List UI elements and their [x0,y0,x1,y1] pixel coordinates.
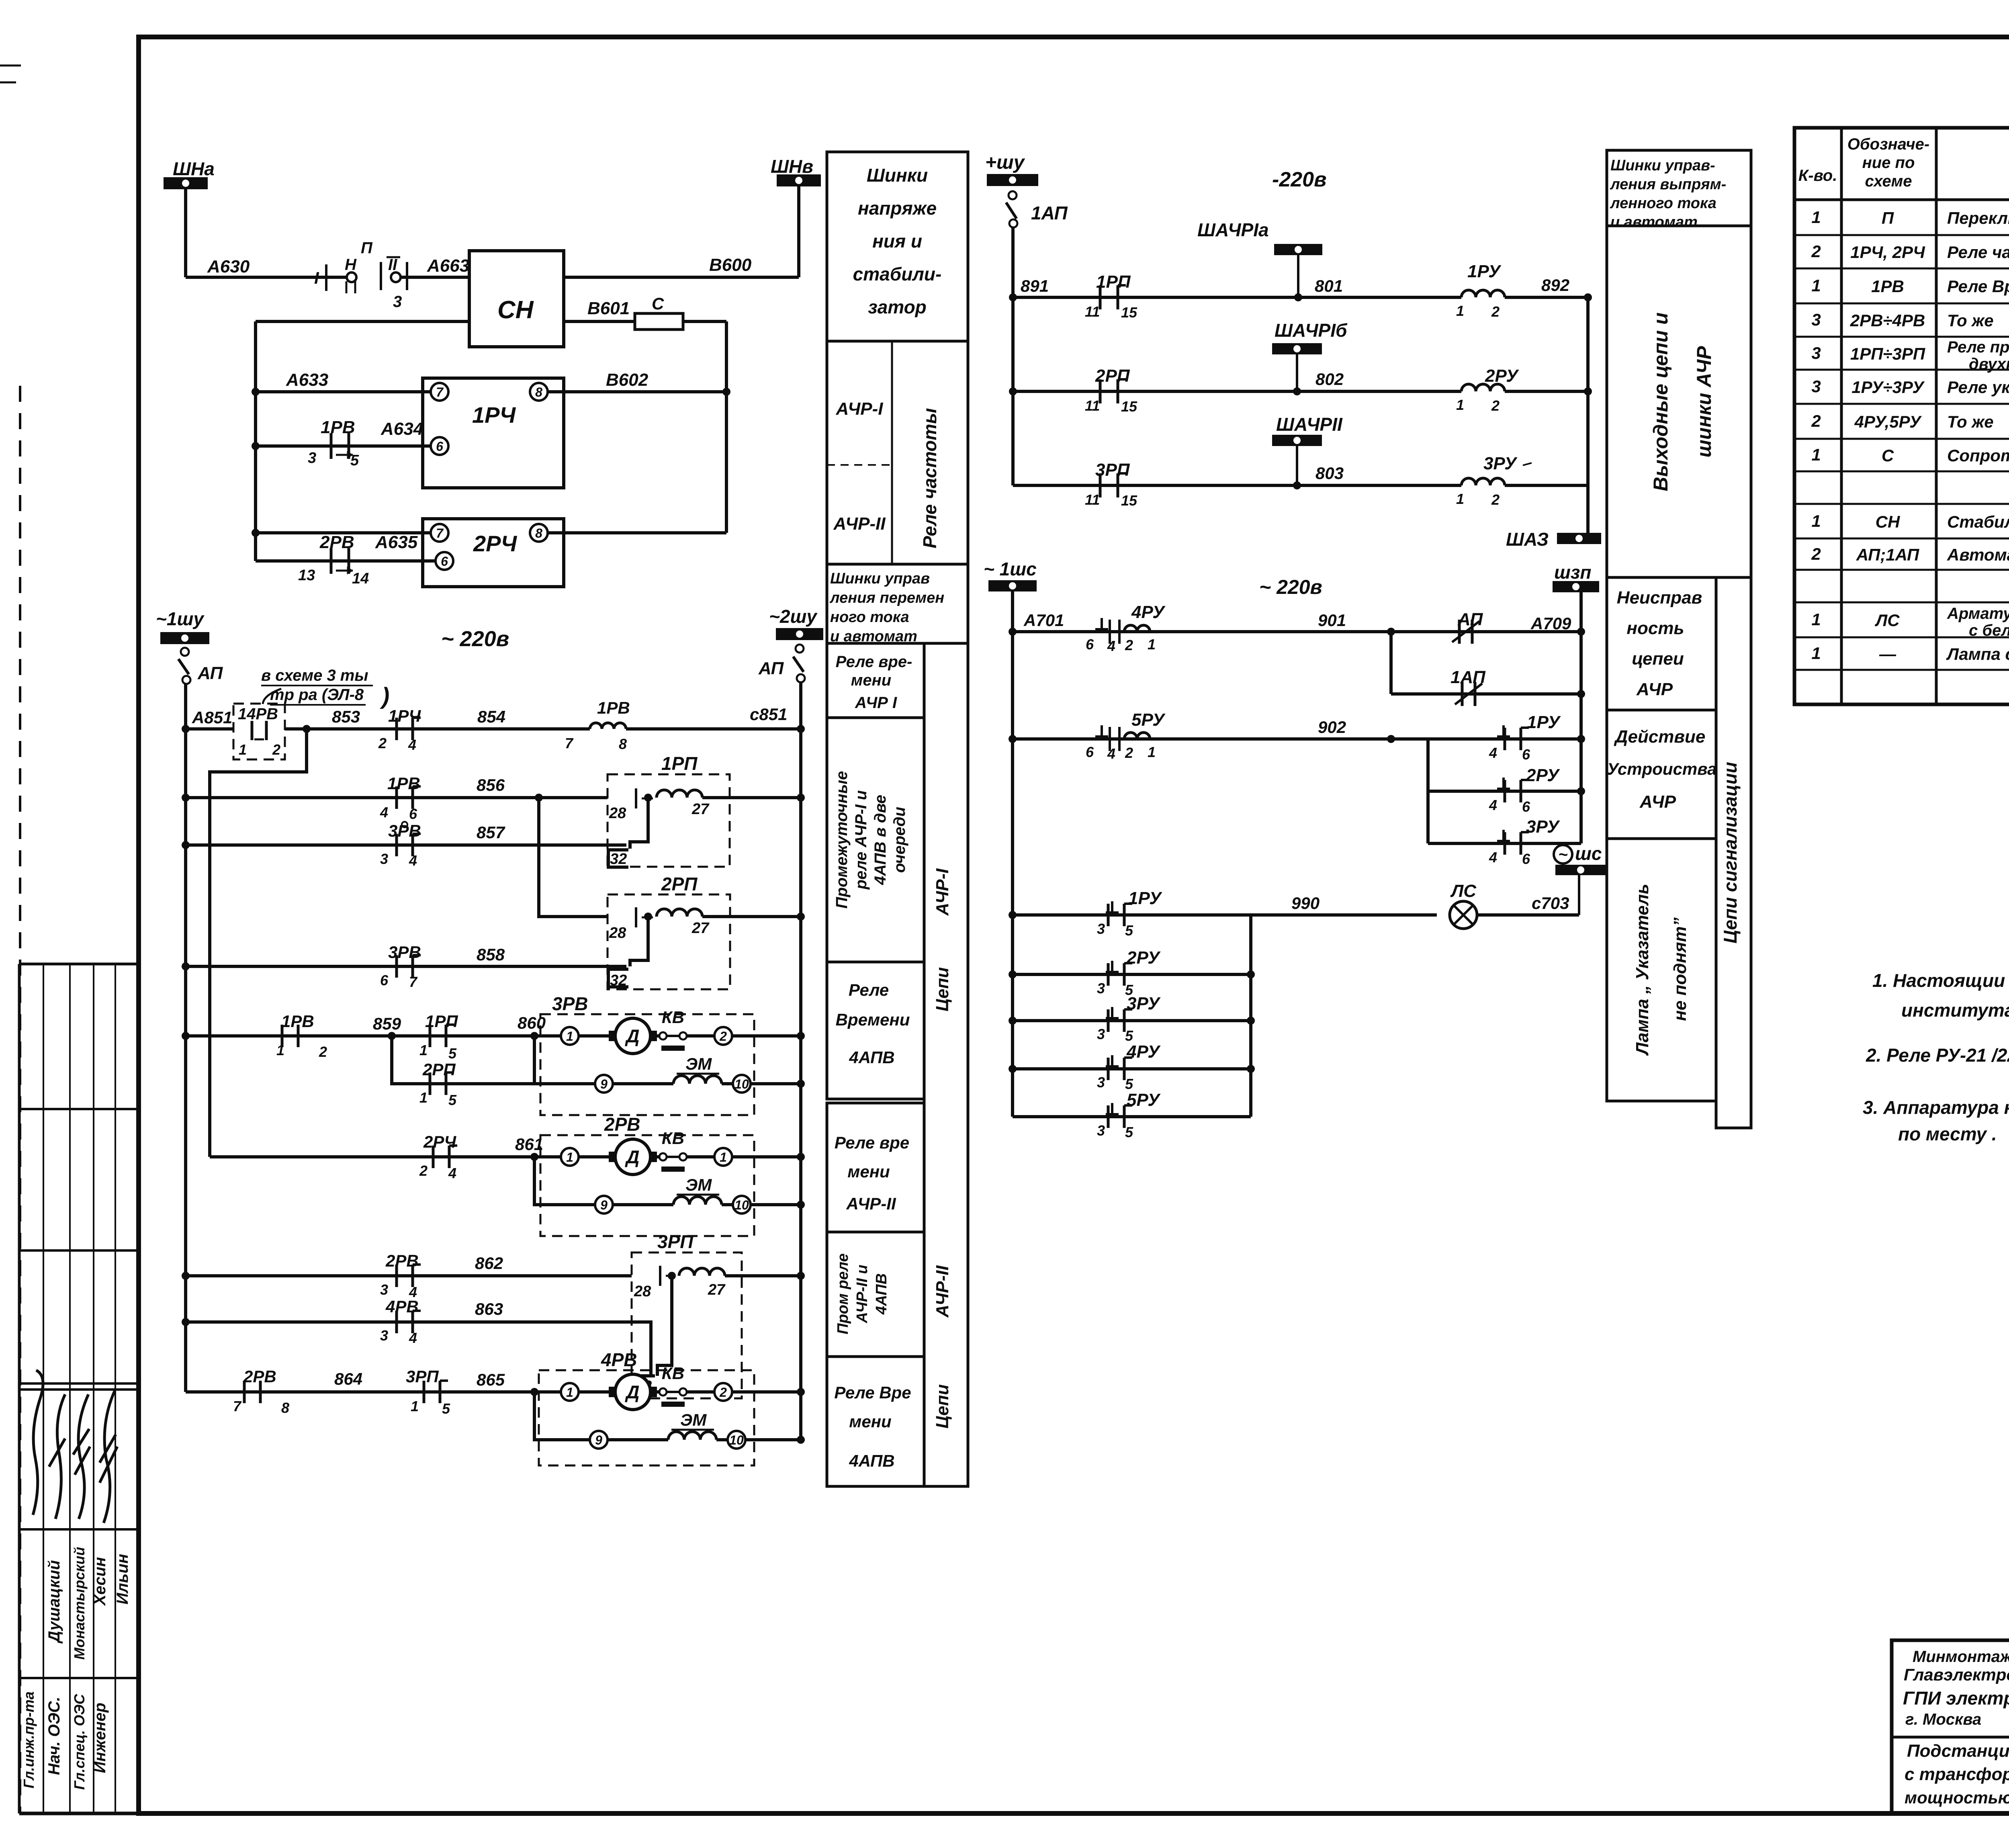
svg-text:7: 7 [436,526,444,540]
svg-text:Цепи: Цепи [933,1384,952,1428]
svg-text:2: 2 [1491,491,1500,508]
svg-text:В601: В601 [587,299,630,318]
4RV EM coil [668,1432,716,1440]
svg-text:2РУ: 2РУ [1526,765,1560,785]
svg-text:901: 901 [1318,611,1346,630]
svg-text:Н: Н [345,256,357,274]
svg-text:7: 7 [565,735,574,751]
1RP internal wire to pin 32 [630,798,648,849]
svg-text:861: 861 [515,1135,543,1154]
3RV output wire [732,1034,801,1038]
svg-text:ШАЧРIб: ШАЧРIб [1275,320,1348,341]
svg-text:и автомат.: и автомат. [1610,214,1702,231]
svg-text:1: 1 [1811,512,1821,530]
svg-text:Шинки управ: Шинки управ [830,570,930,587]
wire to SHNv [797,186,800,277]
svg-text:28: 28 [609,805,626,822]
svg-text:6: 6 [1086,744,1094,760]
svg-text:4: 4 [409,852,417,869]
label box output circuits [1607,226,1751,577]
svg-text:1АП: 1АП [1031,203,1068,223]
label box AChR circuit fault [1607,577,1716,710]
svg-text:856: 856 [477,776,505,794]
svg-text:28: 28 [609,925,626,941]
row 857 with 3RV contact [186,843,626,847]
row 859-860 [186,1034,561,1038]
svg-text:5: 5 [1125,1076,1133,1092]
svg-text:1: 1 [1148,636,1156,653]
svg-text:Реле Вре: Реле Вре [834,1383,911,1402]
svg-text:3РП: 3РП [657,1231,694,1252]
svg-text:Д: Д [624,1146,639,1167]
svg-text:1РП: 1РП [661,753,698,774]
wire c851 [626,727,801,731]
svg-text:1РЧ: 1РЧ [388,706,421,725]
svg-text:Лампа сигнальная: Лампа сигнальная [1946,645,2009,663]
svg-text:1: 1 [566,1150,573,1164]
branch from 853 to 2RCh row [210,729,307,1157]
indicator 4RU contact-coil [1101,618,1103,629]
svg-text:тр ра (ЭЛ-8: тр ра (ЭЛ-8 [270,686,364,704]
svg-text:2. Реле РУ-21 /220 устана: 2. Реле РУ-21 /220 устанавливаются на мо… [1866,1045,2009,1066]
2RP coil to right rail [702,915,801,918]
relay 2RP dashed box [608,894,730,989]
label box time relays 4APV [827,962,924,1099]
time relay 3RV dashed box [540,1014,754,1115]
svg-text:3: 3 [1097,1122,1105,1139]
3RV terminal 1 [561,1027,579,1045]
svg-text:863: 863 [475,1300,503,1318]
wire SHNa down [184,189,187,277]
svg-text:1РВ: 1РВ [321,417,355,437]
2RV EM row [534,1157,595,1205]
DC right rail to ShAZ [1586,297,1590,534]
svg-text:шс: шс [1575,843,1602,864]
row 861 from branch [210,1155,561,1158]
svg-text:2: 2 [319,1044,327,1060]
wire 853 [285,727,590,731]
svg-text:ШНв: ШНв [771,156,813,177]
label box lamp indicator not raised [1607,839,1716,1101]
svg-text:в схеме 3 ты: в схеме 3 ты [261,667,368,684]
contact 1RU 4-6 [1502,725,1505,737]
svg-text:АП: АП [758,659,784,678]
svg-text:5: 5 [448,1092,457,1108]
svg-text:1: 1 [1456,303,1464,319]
svg-text:6: 6 [409,806,417,822]
svg-text:3: 3 [1097,1026,1105,1042]
svg-text:28: 28 [634,1283,651,1300]
bus SHNa [164,177,208,189]
svg-text:5РУ: 5РУ [1127,1090,1161,1110]
svg-text:7: 7 [409,974,418,990]
svg-text:Д: Д [624,1025,639,1046]
svg-text:Устроиства: Устроиства [1607,759,1717,778]
svg-text:10: 10 [734,1077,749,1091]
svg-text:3: 3 [1811,377,1821,396]
terminal 7 of 1RCh [431,383,448,401]
svg-text:1РВ: 1РВ [281,1012,314,1031]
svg-text:Реле указательное: Реле указательное [1947,378,2009,397]
stabilizer SN box [469,251,564,347]
svg-text:5: 5 [1125,1027,1133,1044]
svg-text:8: 8 [619,736,627,752]
svg-text:1: 1 [720,1150,727,1164]
label box AChR device action [1607,710,1716,839]
signature strip [19,963,139,966]
svg-text:4: 4 [409,1330,417,1346]
svg-text:по месту .: по месту . [1898,1124,1997,1144]
svg-text:Переключатель малогабаритныш: Переключатель малогабаритныш [1947,209,2009,227]
svg-text:3РВ: 3РВ [388,821,421,840]
svg-text:802: 802 [1315,370,1344,389]
svg-text:): ) [379,683,389,709]
svg-text:~ 220в: ~ 220в [1259,576,1322,598]
svg-text:шзп: шзп [1554,562,1591,583]
svg-text:АЧР: АЧР [1636,679,1673,699]
svg-text:2: 2 [1811,242,1821,261]
svg-text:АЧР-II: АЧР-II [933,1265,952,1318]
svg-text:1: 1 [1811,610,1821,629]
svg-text:2: 2 [1811,544,1821,563]
svg-text:Гл.спец. ОЭС: Гл.спец. ОЭС [71,1694,88,1790]
svg-text:г. Москва: г. Москва [1905,1711,1981,1728]
1RP coil to right rail [702,796,801,799]
svg-text:2РВ: 2РВ [385,1251,419,1270]
svg-text:ЛС: ЛС [1450,881,1477,901]
row 891 wire [1013,296,1461,299]
svg-text:—: — [1879,645,1896,663]
svg-text:с703: с703 [1532,894,1569,913]
svg-text:Реле: Реле [849,980,889,999]
svg-text:2РВ: 2РВ [319,532,354,552]
svg-text:3: 3 [1097,1074,1105,1091]
svg-text:Ильин: Ильин [114,1554,131,1604]
svg-text:1РЧ: 1РЧ [472,402,516,428]
contact 4RU 3-5 row [1013,1067,1251,1070]
svg-text:АЧР I: АЧР I [855,694,897,712]
svg-text:АЧР-II: АЧР-II [833,514,886,534]
svg-text:То же: То же [1947,412,1994,431]
svg-text:1: 1 [1811,445,1821,464]
svg-text:2РВ÷4РВ: 2РВ÷4РВ [1850,311,1925,330]
left margin dashed line [19,386,21,1813]
svg-text:11: 11 [1085,397,1100,414]
svg-text:2: 2 [1491,303,1500,320]
svg-text:ЭМ: ЭМ [680,1410,707,1429]
svg-text:4: 4 [380,804,388,821]
bus +ShU [987,174,1038,186]
2RV motor D [579,1155,615,1158]
label box prom relay AChR-II [827,1232,924,1357]
rail from ShZP [1579,592,1583,843]
svg-text:напряже: напряже [858,198,937,219]
bus SHNv [777,174,821,186]
row 858 with 3RV contact 6-7 [186,965,626,968]
svg-text:3РВ: 3РВ [388,943,421,962]
svg-text:~ 220в: ~ 220в [441,627,509,651]
svg-text:АЧР-I: АЧР-I [836,399,884,419]
svg-text:3: 3 [380,1327,388,1344]
svg-text:реле АЧР-I и: реле АЧР-I и [852,790,870,890]
svg-text:мени: мени [849,1412,891,1431]
svg-text:3: 3 [380,1281,388,1298]
svg-text:затор: затор [868,297,927,317]
svg-text:1РУ: 1РУ [1527,712,1561,732]
svg-text:5РУ: 5РУ [1131,710,1166,730]
svg-text:ШНа: ШНа [173,158,215,179]
svg-text:3: 3 [1097,980,1105,997]
svg-text:9: 9 [600,1077,608,1091]
svg-text:ГПИ электропроект: ГПИ электропроект [1903,1688,2009,1709]
signature scribbles [33,1370,43,1515]
svg-text:10: 10 [729,1433,744,1447]
svg-text:ШАЧРII: ШАЧРII [1276,414,1343,435]
bus ~1ShU [160,632,209,644]
svg-text:11: 11 [1085,491,1100,508]
svg-text:801: 801 [1315,276,1343,295]
contact 1RU 3-5 [1111,901,1113,913]
svg-text:2РЧ: 2РЧ [473,531,517,556]
svg-text:2: 2 [1125,745,1133,761]
wire B602 [548,390,726,393]
svg-text:Автоматический выключатель: Автоматический выключатель [1947,545,2009,564]
wire to 2RCh terminal 7 [256,531,431,534]
svg-text:СН: СН [1876,512,1901,531]
row 864-865 [186,1390,561,1394]
DC left rail [1011,227,1015,485]
wire A663 [401,276,469,279]
svg-text:4АПВ: 4АПВ [873,1273,890,1315]
svg-text:2РП: 2РП [661,874,698,894]
wire A634 with 1RV contact [256,444,431,448]
svg-text:института Энергосетьпроект: института Энергосетьпроект N 1892 тм - т… [1901,1000,2009,1021]
svg-text:1: 1 [1456,491,1464,507]
svg-text:891: 891 [1021,276,1049,295]
svg-text:14РВ: 14РВ [238,705,278,723]
svg-text:КВ: КВ [662,1364,684,1383]
svg-text:АЧР-I: АЧР-I [933,868,952,916]
svg-text:6: 6 [1522,851,1530,867]
terminal 8 of 1RCh [530,383,548,401]
svg-text:1: 1 [276,1042,284,1058]
svg-text:4АПВ: 4АПВ [849,1048,894,1067]
svg-text:3: 3 [1811,344,1821,362]
svg-text:14: 14 [352,570,369,587]
svg-text:2: 2 [719,1029,727,1044]
relay 1RP dashed box [608,774,730,867]
label box time relay 4APV bottom [827,1357,924,1486]
svg-text:1РВ: 1РВ [387,774,420,793]
svg-text:4РУ: 4РУ [1131,602,1166,622]
svg-text:ЭМ: ЭМ [685,1175,712,1194]
svg-text:Реле частоты: Реле частоты [1947,243,2009,262]
resistor C [635,313,683,329]
label strip Tsepi AChR [924,643,968,1486]
svg-text:~1шу: ~1шу [156,608,205,629]
svg-text:ЛС: ЛС [1874,611,1900,630]
branch 856 to 2RP coil [539,798,608,917]
svg-text:А709: А709 [1530,614,1571,633]
4RV KV contact [651,1390,659,1394]
switch AP right [796,645,804,653]
svg-text:10: 10 [734,1198,749,1212]
svg-text:4РУ: 4РУ [1126,1042,1161,1062]
branch to 1AP row [1389,632,1393,694]
1RP coil [657,790,702,798]
contact 1RCh 2-4 [395,718,398,740]
dashed box 14RV [233,704,285,759]
svg-text:4РВ: 4РВ [601,1349,637,1370]
3RP internal wire to pin 32 [657,1276,672,1376]
svg-text:3РУ: 3РУ [1526,817,1560,837]
svg-text:15: 15 [1121,304,1137,321]
svg-text:Цепи: Цепи [933,967,952,1011]
contact 5RU 3-5 row [1013,1115,1251,1118]
contact AP [1458,620,1461,644]
svg-text:Арматура сигнальной лампы: Арматура сигнальной лампы [1947,605,2009,622]
svg-text:4РВ: 4РВ [385,1297,419,1316]
svg-text:3РУ: 3РУ [1483,454,1518,473]
label box intermediate relays [827,718,924,962]
svg-text:858: 858 [477,945,505,964]
svg-text:1: 1 [1811,208,1821,227]
svg-text:2РЧ: 2РЧ [423,1132,456,1151]
svg-text:853: 853 [332,707,360,726]
4RV terminal 1 [561,1383,579,1401]
svg-text:6: 6 [436,439,443,454]
contact 2RU 4-6 [1428,790,1581,793]
svg-text:4: 4 [1489,849,1497,866]
time relay 2RV dashed box [540,1135,754,1236]
svg-text:А630: А630 [207,257,250,276]
svg-text:ления выпрям-: ления выпрям- [1610,176,1726,193]
right rail of ladder [799,682,802,1440]
indicator relay coil 2RU [1461,384,1505,391]
2RP internal wire to pin 32 [630,917,648,966]
wire B600 [564,276,799,279]
svg-text:27: 27 [691,801,710,818]
svg-text:цепеи: цепеи [1632,649,1684,669]
svg-text:6: 6 [1086,636,1094,653]
svg-text:мени: мени [851,671,891,689]
label strip signal circuits [1716,577,1751,1128]
svg-text:1РЧ, 2РЧ: 1РЧ, 2РЧ [1850,243,1925,262]
bus ~2ShU [776,628,823,640]
row 901 wire [1013,630,1391,633]
3RV EM coil [673,1076,722,1084]
svg-text:2РВ: 2РВ [243,1367,276,1386]
svg-text:ленного тока: ленного тока [1610,195,1716,212]
wire A630 [186,276,347,279]
lamp row 990 [1013,913,1251,917]
svg-text:2: 2 [1125,637,1133,653]
bracket 1RU-3RU rows [1426,739,1430,843]
svg-text:АЧР-II: АЧР-II [846,1194,896,1213]
svg-text:Пром реле: Пром реле [835,1253,851,1334]
contact 1RP 11-15 [1099,285,1102,309]
svg-text:Действие: Действие [1614,727,1706,747]
contact 3RU 3-5 row [1013,1019,1251,1022]
4RV EM row [534,1392,590,1440]
svg-text:803: 803 [1315,464,1344,483]
svg-text:ЭМ: ЭМ [685,1054,712,1073]
svg-text:1: 1 [566,1029,573,1044]
svg-text:Минмонтажспецстрои СССР: Минмонтажспецстрои СССР [1913,1648,2009,1666]
svg-text:865: 865 [477,1370,505,1389]
svg-text:Д: Д [624,1381,639,1402]
row 803 wire [1013,484,1461,487]
svg-text:ШАЗ: ШАЗ [1506,529,1549,550]
svg-text:очереди: очереди [891,807,908,873]
svg-text:13: 13 [298,567,315,584]
svg-text:2: 2 [419,1162,428,1179]
svg-text:Цепи сигнализации: Цепи сигнализации [1720,762,1741,943]
svg-text:859: 859 [373,1014,401,1033]
switch AP left [181,648,189,656]
row 862 with 2RV contact [186,1274,632,1277]
svg-text:ления перемен: ления перемен [829,589,944,606]
svg-text:1: 1 [419,1042,428,1058]
svg-text:2РУ: 2РУ [1126,948,1161,968]
svg-text:7: 7 [436,385,444,399]
svg-text:3РВ: 3РВ [552,993,588,1014]
svg-text:АП: АП [1457,610,1483,629]
svg-text:Выходные цепи и: Выходные цепи и [1649,312,1672,491]
svg-text:1РП: 1РП [425,1012,458,1031]
label box voltage buses and stabilizer [827,152,968,341]
wire 990 to lamp [1251,913,1437,917]
svg-text:двухпозиционное: двухпозиционное [1969,355,2009,373]
svg-text:4РУ,5РУ: 4РУ,5РУ [1854,412,1923,431]
svg-text:В602: В602 [606,370,649,390]
svg-text:с трансформаторами: с трансформаторами [1905,1764,2009,1784]
svg-text:Реле Времени: Реле Времени [1947,277,2009,296]
terminal 6 of 2RCh [436,552,453,570]
svg-text:А634: А634 [381,419,423,439]
svg-text:1РВ: 1РВ [1871,277,1904,296]
svg-text:4: 4 [448,1165,456,1181]
svg-text:3: 3 [1811,310,1821,329]
svg-text:5: 5 [1125,922,1133,939]
svg-text:Монастырский: Монастырский [71,1547,88,1660]
svg-text:С: С [652,294,664,313]
label box AChR-I / AChR-II / frequency relays [827,341,968,564]
svg-text:КВ: КВ [662,1008,684,1027]
svg-text:1. Настоящии чертеж вы: 1. Настоящии чертеж выполнен на основани… [1872,970,2009,991]
freq relay 2RCh box [423,519,564,587]
svg-text:А633: А633 [286,370,328,390]
wire 2RCh-8 to right rail [548,531,726,534]
bus shs with lamp symbol [1554,845,1572,864]
svg-text:Реле частоты: Реле частоты [919,408,940,548]
2RV KV contact [651,1155,659,1158]
svg-text:11: 11 [1085,303,1100,320]
svg-text:6: 6 [380,972,389,988]
svg-text:9: 9 [600,1198,608,1212]
3RP coil to right rail [725,1274,801,1277]
svg-text:К-во.: К-во. [1798,167,1837,184]
label box time relay AChR I [827,643,924,718]
svg-text:2: 2 [719,1385,727,1400]
svg-text:32: 32 [610,851,627,868]
svg-text:1: 1 [1811,276,1821,295]
svg-text:6: 6 [1522,746,1530,763]
svg-text:2: 2 [1811,411,1821,430]
svg-text:854: 854 [477,707,505,726]
parallel 2RP contact row [392,1036,534,1084]
svg-text:II: II [388,256,397,274]
